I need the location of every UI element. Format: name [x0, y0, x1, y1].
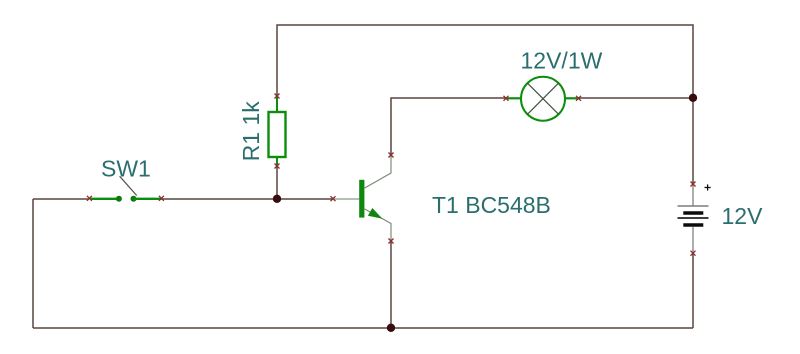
svg-text:12V: 12V: [722, 203, 764, 229]
wire emitter to bottom rail: [390, 241, 392, 328]
emitter line: [364, 209, 391, 241]
transistor Q1 (T1): [334, 156, 391, 240]
battery B1: [678, 185, 709, 252]
battery plus sign: [705, 184, 711, 190]
pin mark battery plus: [691, 182, 696, 187]
plate long 2: [678, 217, 709, 219]
pin mark resistor top: [275, 94, 280, 99]
node B junction dot: [689, 94, 697, 102]
emitter arrow: [368, 208, 383, 219]
pin mark emitter: [389, 239, 394, 244]
pin mark resistor bottom: [275, 164, 280, 169]
wire node B to battery plus: [692, 98, 694, 184]
collector line: [364, 156, 391, 189]
plate short 1: [683, 211, 703, 215]
wire lamp to node B: [578, 97, 693, 99]
pin mark switch right: [159, 196, 164, 201]
pin mark lamp right: [576, 96, 581, 101]
switch SW1: [91, 176, 162, 202]
wire resistor bottom to node A: [276, 166, 278, 199]
resistor R1: [269, 96, 286, 166]
svg-text:12V/1W: 12V/1W: [521, 48, 603, 74]
pin mark lamp left: [504, 96, 509, 101]
base pin: [334, 198, 359, 200]
wire battery minus to bottom rail: [692, 253, 694, 328]
body bar: [359, 180, 364, 218]
wire collector to lamp: [391, 98, 506, 155]
wire node A to base: [277, 198, 333, 200]
wire switch to node A: [161, 198, 277, 200]
plate long 1: [678, 205, 709, 207]
wire top horizontal V+: [277, 25, 693, 98]
node A junction dot: [273, 195, 281, 203]
wire bottom rail: [33, 327, 693, 329]
pin mark collector: [389, 153, 394, 158]
plate short 2: [683, 223, 703, 227]
svg-text:R1 1k: R1 1k: [238, 101, 264, 162]
node C junction dot emitter/bottom: [387, 324, 395, 332]
wire left to switch: [33, 198, 89, 200]
lamp LA1: [506, 77, 579, 121]
svg-text:SW1: SW1: [101, 156, 151, 182]
pin mark battery minus: [691, 251, 696, 256]
pin mark switch left: [87, 196, 92, 201]
wire left rail: [32, 199, 34, 328]
svg-text:T1 BC548B: T1 BC548B: [432, 192, 551, 218]
pin mark base: [331, 196, 336, 201]
